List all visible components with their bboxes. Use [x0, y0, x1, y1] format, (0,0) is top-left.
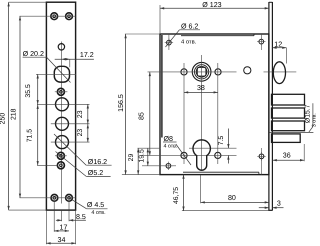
- svg-text:3 отв.: 3 отв.: [312, 113, 318, 127]
- svg-text:34: 34: [58, 236, 66, 244]
- latch bolt oval: [273, 62, 285, 84]
- ext lines circles right: [37, 103, 90, 105]
- dim 35.5: [37, 74, 39, 104]
- svg-text:46,75: 46,75: [173, 187, 180, 204]
- hole d8 top-left: [181, 69, 187, 75]
- svg-text:38: 38: [197, 84, 205, 92]
- base ext line bottom right: [182, 210, 273, 212]
- grommet hole d5.2 upper: [57, 88, 64, 95]
- label diameter 5.2: [56, 152, 87, 177]
- deadbolt pin 1: [272, 94, 305, 105]
- svg-text:218: 218: [11, 108, 18, 120]
- mount hole bottom-left (d6.2): [166, 163, 171, 168]
- dim 7.5: [227, 129, 229, 149]
- grommet hole d5.2 lower: [57, 162, 64, 169]
- svg-text:19.5: 19.5: [139, 149, 146, 163]
- deadbolt pin 2: [272, 108, 305, 118]
- hole d8 bottom-left: [181, 152, 187, 158]
- euro cylinder hole: [193, 140, 210, 170]
- ext line through top screws: [20, 15, 76, 17]
- screw hole top-left (d4.5): [51, 13, 58, 20]
- dim 23 upper: [87, 104, 89, 124]
- hole d8 top-right: [215, 69, 221, 75]
- lid inner edge bottom: [183, 171, 259, 173]
- svg-text:Ø 6.2: Ø 6.2: [181, 23, 198, 31]
- faceplate outline: [46, 2, 75, 210]
- svg-text:Ø 4.5: Ø 4.5: [87, 201, 104, 209]
- lower bolt: [272, 134, 301, 143]
- svg-text:Ø 20.2: Ø 20.2: [23, 50, 44, 58]
- handle square hole d20.2: [54, 66, 69, 82]
- label diameter 16.2: [54, 134, 86, 165]
- svg-text:23: 23: [77, 110, 84, 118]
- dim 17: [53, 201, 55, 232]
- dim 250: [9, 1, 47, 3]
- dim 19.5: [147, 148, 149, 166]
- screw hole bottom-left (d4.5): [51, 194, 58, 201]
- svg-text:7.5: 7.5: [218, 136, 225, 146]
- leader d20.2: [47, 57, 71, 82]
- dim 23 lower: [87, 124, 89, 142]
- large hole 3 (d16.2): [56, 136, 69, 149]
- large hole 1: [56, 98, 69, 111]
- lid inner edge left: [161, 35, 163, 138]
- dim 29: [137, 148, 139, 174]
- dim 34: [45, 210, 47, 244]
- small hole top: [58, 44, 64, 50]
- svg-text:8.5: 8.5: [76, 213, 86, 221]
- svg-text:4 отв.: 4 отв.: [91, 210, 105, 216]
- label diameter 4.5: [69, 198, 86, 209]
- svg-text:29: 29: [128, 154, 135, 162]
- dim 12: [272, 47, 286, 49]
- center lines: [148, 71, 237, 73]
- handle hub circles: [192, 62, 211, 81]
- svg-text:23: 23: [77, 129, 84, 137]
- dim diameter 123: [159, 5, 161, 33]
- dim 71.5: [37, 104, 39, 165]
- large hole 2: [56, 117, 69, 130]
- mount hole bottom-right (d6.2): [259, 154, 264, 159]
- svg-text:85: 85: [138, 112, 146, 120]
- dim 38: [184, 91, 218, 93]
- lid inner edge top: [181, 35, 254, 37]
- svg-text:35.5: 35.5: [25, 84, 32, 98]
- center line of square hole / ext for 35.5: [36, 73, 76, 75]
- grommet hole d5.2 middle: [57, 152, 64, 159]
- dim 85: [149, 72, 151, 155]
- svg-text:80: 80: [228, 194, 236, 202]
- hole d8 bottom-right: [215, 152, 221, 158]
- hub square: [197, 67, 206, 76]
- screw hole top-right (d4.5): [66, 13, 73, 20]
- svg-text:3: 3: [277, 199, 281, 207]
- dim 17.2: [55, 58, 94, 60]
- dim 8.5: [61, 210, 63, 221]
- faceplate vertical center line: [61, 42, 63, 204]
- svg-text:Ø 123: Ø 123: [202, 1, 221, 9]
- mount hole top-right (d6.2): [259, 39, 264, 44]
- dim 46.75: [183, 175, 185, 211]
- svg-text:17.2: 17.2: [80, 51, 94, 59]
- dim 3 (plate thickness): [259, 207, 269, 209]
- svg-text:17: 17: [60, 223, 68, 231]
- screw hole bottom-right (d4.5): [66, 194, 73, 201]
- svg-text:12: 12: [274, 40, 282, 48]
- dim 36: [303, 144, 305, 161]
- ext line through bottom screws: [20, 197, 76, 199]
- ext line lower grommet left: [37, 164, 58, 166]
- dim 218: [19, 16, 21, 198]
- svg-text:Ø5.2: Ø5.2: [88, 169, 103, 177]
- lock body outline: [160, 34, 269, 175]
- svg-text:Ø8: Ø8: [164, 135, 174, 143]
- deadbolt pin 3: [272, 121, 305, 131]
- svg-text:71.5: 71.5: [27, 129, 34, 143]
- svg-text:36: 36: [283, 152, 291, 160]
- dim 156.5: [125, 33, 160, 35]
- svg-text:Ø16.2: Ø16.2: [88, 158, 107, 166]
- svg-text:250: 250: [0, 113, 6, 125]
- mount hole top-left (d6.2): [167, 40, 172, 45]
- svg-text:4 отв.: 4 отв.: [164, 143, 178, 149]
- side plate (bar): [268, 2, 270, 211]
- plain hole near bar: [244, 67, 251, 74]
- svg-text:156.5: 156.5: [117, 94, 125, 112]
- svg-text:4 отв.: 4 отв.: [181, 40, 197, 46]
- dim 80: [200, 175, 202, 203]
